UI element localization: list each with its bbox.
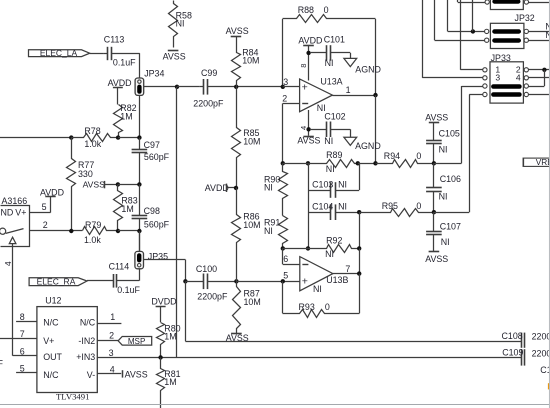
resistor R85 10M bbox=[232, 87, 261, 189]
svg-text:AVDD: AVDD bbox=[108, 78, 132, 88]
svg-text:1: 1 bbox=[110, 312, 115, 322]
svg-text:2200pF: 2200pF bbox=[532, 349, 550, 359]
svg-text:4: 4 bbox=[516, 73, 521, 83]
svg-text:-IN2: -IN2 bbox=[78, 336, 95, 346]
svg-text:AVDD: AVDD bbox=[298, 36, 322, 46]
feedback R93 left bbox=[282, 281, 284, 313]
ground AVSS (C107) bbox=[425, 252, 448, 264]
wire A3166 pin5 bbox=[30, 197, 51, 213]
svg-text:2: 2 bbox=[282, 93, 287, 103]
wire U13A output bbox=[332, 85, 375, 95]
svg-text:C101: C101 bbox=[324, 35, 345, 45]
resistor R81 1M bbox=[157, 358, 181, 408]
svg-text:AVSS: AVSS bbox=[425, 254, 448, 264]
svg-text:1.0k: 1.0k bbox=[84, 235, 101, 245]
pin 6 label bbox=[20, 347, 25, 357]
svg-text:AGND: AGND bbox=[355, 141, 381, 151]
wire U13B output bbox=[333, 264, 359, 274]
capacitor C109 2200pF bbox=[502, 347, 550, 365]
junction dot C102 bbox=[306, 127, 310, 131]
svg-text:N/C: N/C bbox=[43, 317, 59, 327]
wire U12 pin5 stub bbox=[16, 363, 37, 373]
svg-text:C114: C114 bbox=[109, 262, 130, 272]
svg-text:6: 6 bbox=[283, 254, 288, 264]
svg-text:10M: 10M bbox=[242, 55, 259, 65]
svg-text:N/C: N/C bbox=[80, 317, 96, 327]
wire C100 net down to C108 wire bbox=[185, 281, 187, 341]
power AVSS tick (U12 pin4) bbox=[123, 369, 148, 379]
svg-text:AVSS: AVSS bbox=[425, 113, 448, 123]
junction dot R94 left bbox=[373, 161, 377, 165]
resistor R80 1M bbox=[157, 323, 181, 358]
wire stub to dot bbox=[472, 0, 474, 31]
junction dot U13A pin3 bbox=[281, 85, 285, 89]
net flag MSP bbox=[118, 337, 152, 347]
op-amp U13B bbox=[300, 257, 349, 295]
junction dot R92 mid bbox=[306, 246, 310, 250]
svg-text:C108: C108 bbox=[502, 331, 523, 341]
svg-text:0.1uF: 0.1uF bbox=[113, 57, 136, 67]
wire C99 to opamp node bbox=[236, 86, 283, 88]
svg-text:2200pF: 2200pF bbox=[197, 292, 228, 302]
junction dot R80-R81 bbox=[158, 355, 162, 359]
wire AVSS node bbox=[118, 184, 139, 186]
resistor R87 10M bbox=[233, 282, 261, 334]
resistor R82 1M bbox=[114, 103, 137, 138]
capacitor C113 0.1uF bbox=[104, 35, 140, 68]
svg-text:C98: C98 bbox=[144, 206, 160, 216]
junction dot C97-C98 bbox=[137, 182, 141, 186]
pin 4 sideways label bbox=[299, 126, 308, 130]
power AVDD tick (R85-R86) bbox=[205, 183, 236, 193]
capacitor C101 NI bbox=[311, 35, 351, 68]
wire JP35 bottom to C114 bbox=[117, 269, 140, 281]
wire C106 node to JP33 pin7 bbox=[434, 95, 483, 213]
svg-text:AVSS: AVSS bbox=[226, 333, 249, 343]
wire bus to JP31 bbox=[458, 0, 486, 3]
svg-text:NI: NI bbox=[338, 179, 347, 189]
resistor R84 10M bbox=[232, 37, 260, 87]
capacitor C108 2200pF bbox=[502, 331, 550, 348]
junction dot C100 left bbox=[183, 279, 187, 283]
svg-text:AVSS: AVSS bbox=[83, 180, 106, 190]
power AVDD (A3166 pin5) bbox=[40, 187, 64, 197]
junction dot U13A out bbox=[373, 93, 377, 97]
wire bus to JP32 pin1 bbox=[448, 0, 485, 32]
comparator A3166 (partial) bbox=[1, 196, 30, 247]
capacitor C97 560pF bbox=[132, 138, 170, 185]
svg-text:R95: R95 bbox=[382, 201, 398, 211]
svg-text:TLV3491: TLV3491 bbox=[56, 392, 89, 402]
power AVSS (R84) bbox=[226, 26, 249, 36]
svg-text:C105: C105 bbox=[439, 129, 460, 139]
ground AVSS (U13A pin4) bbox=[297, 136, 320, 146]
svg-text:C113: C113 bbox=[104, 35, 125, 45]
wire R92 to U13B out bbox=[359, 248, 361, 273]
svg-text:NI: NI bbox=[439, 191, 448, 201]
svg-text:C1: C1 bbox=[540, 365, 550, 375]
junction dot R92 left bbox=[281, 246, 285, 250]
svg-text:5: 5 bbox=[20, 363, 25, 373]
power AVSS tick (R83) bbox=[83, 180, 118, 190]
svg-text:NI: NI bbox=[264, 226, 273, 236]
svg-text:0: 0 bbox=[325, 302, 330, 312]
svg-text:NI: NI bbox=[439, 145, 448, 155]
wire U13B pin6 bbox=[283, 248, 300, 264]
svg-text:C107: C107 bbox=[440, 221, 461, 231]
svg-text:AVDD: AVDD bbox=[205, 183, 229, 193]
svg-text:NI: NI bbox=[325, 249, 334, 259]
wire U12 pin2 to MSP bbox=[97, 331, 118, 341]
wire C113 to JP34 top bbox=[139, 53, 141, 78]
capacitor C99 2200pF bbox=[193, 68, 236, 108]
text fragment orange bbox=[548, 383, 550, 389]
junction dot C103 right bbox=[356, 161, 360, 165]
svg-text:ELEC_RA: ELEC_RA bbox=[37, 277, 76, 287]
svg-text:AVSS: AVSS bbox=[125, 369, 148, 379]
wire C100 to U13B pin5 bbox=[236, 281, 299, 283]
junction dot JP33 pin2 bbox=[542, 68, 546, 72]
wire U13A pin4 down bbox=[308, 110, 310, 136]
pin 4 label A3166 bbox=[3, 261, 13, 266]
resistor R91 NI bbox=[264, 216, 288, 249]
A3166 switch symbol bbox=[0, 228, 24, 247]
power DVDD bbox=[151, 296, 176, 322]
junction dot R82 bottom bbox=[116, 135, 120, 139]
junction dot JP32 pin1 wire bbox=[471, 29, 475, 33]
svg-text:1M: 1M bbox=[164, 332, 176, 342]
svg-text:2: 2 bbox=[43, 220, 48, 230]
resistor R86 10M bbox=[232, 188, 261, 282]
svg-text:NI: NI bbox=[313, 284, 322, 294]
pin 8 sideways label bbox=[299, 64, 308, 68]
svg-text:4: 4 bbox=[110, 365, 115, 375]
resistor R89 NI bbox=[283, 150, 358, 174]
wire U12 pin3 +IN3 bbox=[97, 348, 521, 358]
svg-text:C97: C97 bbox=[144, 140, 160, 150]
wire U12 pin4 bbox=[97, 365, 121, 375]
junction dot C103 left bbox=[306, 161, 310, 165]
wire left edge to R78 bbox=[0, 137, 71, 139]
capacitor C104 NI bbox=[308, 190, 359, 220]
svg-text:+: + bbox=[302, 82, 308, 94]
wires JP33 right bbox=[528, 70, 550, 95]
svg-text:R88: R88 bbox=[298, 5, 314, 15]
window edge bottom bbox=[0, 404, 550, 406]
svg-text:U13A: U13A bbox=[320, 76, 342, 86]
svg-text:C100: C100 bbox=[196, 264, 217, 274]
pin 2 label bbox=[282, 93, 287, 103]
svg-text:V-: V- bbox=[87, 370, 95, 380]
svg-text:6: 6 bbox=[20, 347, 25, 357]
svg-text:7: 7 bbox=[20, 329, 25, 339]
wire U12 pin7 V+ bbox=[0, 329, 37, 339]
junction dot R83 bottom bbox=[116, 229, 120, 233]
svg-text:8: 8 bbox=[20, 312, 25, 322]
ground AGND (C102) bbox=[344, 129, 381, 151]
svg-text:N/C: N/C bbox=[43, 370, 59, 380]
svg-text:ND: ND bbox=[1, 208, 14, 218]
wire chain to JP35 bbox=[139, 231, 141, 251]
resistor R94 0 bbox=[376, 151, 434, 167]
svg-text:C103: C103 bbox=[312, 179, 333, 189]
resistor R95 0 bbox=[360, 201, 434, 217]
svg-text:1M: 1M bbox=[121, 204, 133, 214]
svg-text:3: 3 bbox=[495, 73, 500, 83]
svg-text:VRE: VRE bbox=[536, 157, 550, 167]
feedback loop R88 left bbox=[282, 19, 284, 87]
svg-text:AVSS: AVSS bbox=[297, 136, 320, 146]
junction dot AVDD bbox=[234, 186, 238, 190]
wire JP34 to node LA bbox=[144, 86, 177, 88]
svg-text:DVDD: DVDD bbox=[151, 296, 176, 306]
wire pin3 to U13A bbox=[283, 86, 300, 88]
svg-text:7: 7 bbox=[345, 264, 350, 274]
svg-text:8: 8 bbox=[299, 64, 308, 68]
resistor R90 NI bbox=[264, 164, 288, 216]
wire C105 node to JP33 pin5 bbox=[434, 86, 483, 164]
wire node LA down bbox=[176, 87, 178, 358]
capacitor C105 NI bbox=[426, 123, 460, 164]
svg-text:1: 1 bbox=[346, 85, 351, 95]
feedback R93 right bbox=[359, 274, 361, 314]
jumper JP32 bbox=[485, 13, 535, 48]
wire U12 pin1 stub bbox=[97, 312, 121, 324]
svg-text:R94: R94 bbox=[384, 151, 400, 161]
svg-text:C104: C104 bbox=[312, 201, 333, 211]
window edge right bbox=[549, 0, 550, 408]
svg-text:C109: C109 bbox=[502, 347, 523, 357]
capacitor C106 NI bbox=[426, 163, 461, 212]
wires JP32 right bbox=[528, 21, 550, 40]
svg-text:10M: 10M bbox=[243, 220, 260, 230]
svg-text:NI: NI bbox=[326, 164, 335, 174]
svg-text:NI: NI bbox=[325, 58, 334, 68]
svg-text:10M: 10M bbox=[244, 297, 261, 307]
pin 5 label bbox=[283, 270, 288, 280]
capacitor C102 NI bbox=[311, 112, 351, 147]
resistor R92 NI bbox=[283, 236, 360, 260]
resistor R78 1.0k bbox=[72, 126, 119, 149]
svg-text:6: 6 bbox=[0, 346, 1, 356]
junction dot R77 top bbox=[69, 135, 73, 139]
junction dot C104 right bbox=[357, 210, 361, 214]
wire C104 right down bbox=[359, 212, 361, 248]
pin 3 label bbox=[283, 77, 288, 87]
wire R78 to C97 node bbox=[118, 137, 139, 139]
capacitor C103 NI bbox=[308, 163, 360, 198]
svg-text:R78: R78 bbox=[84, 126, 100, 136]
capacitor C100 2200pF bbox=[185, 264, 236, 302]
resistor R88 0 bbox=[283, 5, 376, 23]
net flag ELEC_RA bbox=[29, 277, 87, 287]
capacitor C107 NI bbox=[426, 212, 461, 252]
junction dot R89 left bbox=[281, 161, 285, 165]
ground AVSS (R58) bbox=[163, 51, 186, 62]
jumper JP33 bbox=[483, 53, 529, 103]
wire JP34 bottom down bbox=[139, 95, 141, 137]
junction dot R77 bottom bbox=[69, 229, 73, 233]
svg-text:560pF: 560pF bbox=[144, 152, 170, 162]
svg-text:MSP: MSP bbox=[128, 337, 146, 346]
junction dot chain-R79 bbox=[137, 229, 141, 233]
wire bus to JP33 pin1 bbox=[460, 0, 483, 70]
svg-text:OUT: OUT bbox=[43, 352, 62, 362]
resistor R79 1.0k bbox=[83, 220, 119, 245]
svg-text:NI: NI bbox=[441, 237, 450, 247]
junction dot R83 top bbox=[116, 182, 120, 186]
wire net RA to C108 bbox=[185, 341, 521, 343]
junction dot R84 node bbox=[234, 85, 238, 89]
op-amp U13A bbox=[300, 76, 343, 113]
power AVDD (U13A) bbox=[298, 36, 322, 81]
junction dot R92 right bbox=[357, 246, 361, 250]
wire U13A pin2 bbox=[283, 103, 300, 163]
capacitor C98 560pF bbox=[132, 184, 170, 251]
svg-text:3: 3 bbox=[109, 348, 114, 358]
svg-text:3: 3 bbox=[283, 77, 288, 87]
feedback loop R88 right bbox=[375, 19, 377, 95]
svg-text:JP34: JP34 bbox=[144, 68, 164, 78]
svg-text:560pF: 560pF bbox=[144, 220, 170, 230]
svg-text:U13B: U13B bbox=[326, 275, 348, 285]
IC U12 TLV3491 bbox=[37, 295, 97, 401]
svg-text:5: 5 bbox=[42, 202, 47, 212]
svg-text:2200pF: 2200pF bbox=[532, 331, 550, 341]
wire node LA to C99 bbox=[177, 86, 200, 88]
svg-text:AGND: AGND bbox=[355, 64, 381, 74]
power AVDD (R82) bbox=[108, 78, 132, 104]
svg-text:0: 0 bbox=[416, 201, 421, 211]
junction dot U13B out bbox=[357, 271, 361, 275]
svg-text:F: F bbox=[0, 358, 4, 368]
svg-text:A3166: A3166 bbox=[2, 196, 28, 206]
capacitor C114 0.1uF bbox=[87, 262, 140, 295]
resistor R58 NI bbox=[169, 1, 192, 48]
svg-text:JP32: JP32 bbox=[515, 13, 535, 23]
svg-text:R79: R79 bbox=[85, 220, 101, 230]
svg-text:R93: R93 bbox=[299, 302, 315, 312]
svg-text:NI: NI bbox=[264, 183, 273, 193]
svg-text:0: 0 bbox=[324, 5, 329, 15]
ground AGND (C101) bbox=[344, 53, 381, 75]
svg-text:1M: 1M bbox=[164, 377, 176, 387]
svg-text:U12: U12 bbox=[45, 295, 61, 305]
ground AVSS (R87) bbox=[226, 333, 249, 343]
wire R89 to out node bbox=[358, 163, 376, 165]
svg-text:1.0k: 1.0k bbox=[84, 139, 101, 149]
svg-text:R92: R92 bbox=[326, 236, 342, 246]
wire ELEC_LA to C113 bbox=[90, 53, 104, 55]
svg-text:+: + bbox=[302, 276, 308, 288]
svg-text:R89: R89 bbox=[326, 150, 342, 160]
text fragment C1.6 bbox=[0, 346, 4, 368]
resistor R77 330 bbox=[67, 138, 95, 232]
junction dot C97 top bbox=[137, 135, 141, 139]
net label VREF (partial) bbox=[523, 157, 550, 167]
svg-text:AVSS: AVSS bbox=[163, 51, 186, 61]
wire out down to R89 row bbox=[375, 95, 377, 163]
junction dot node LA bbox=[175, 85, 179, 89]
svg-text:330: 330 bbox=[78, 169, 93, 179]
svg-text:ELEC_LA: ELEC_LA bbox=[40, 48, 78, 58]
power AVSS (C105) bbox=[425, 113, 448, 123]
svg-text:0: 0 bbox=[416, 151, 421, 161]
svg-text:NI: NI bbox=[176, 18, 185, 28]
wire bus to JP33 pin3 bbox=[422, 0, 483, 78]
resistor R83 1M bbox=[114, 185, 138, 232]
jumper JP35 bbox=[135, 251, 168, 268]
junction dot U13B pin5 bbox=[281, 279, 285, 283]
wire R79 node to chain bbox=[118, 230, 139, 232]
svg-text:+IN3: +IN3 bbox=[76, 352, 95, 362]
junction dot C105-C106 bbox=[432, 161, 436, 165]
wire U12 pin8 stub bbox=[16, 312, 37, 322]
wire JP33 pin2 to pin6 bbox=[528, 70, 544, 87]
svg-text:10M: 10M bbox=[243, 137, 260, 147]
svg-text:5: 5 bbox=[283, 270, 288, 280]
text fragment C1 bbox=[540, 365, 550, 375]
svg-text:C102: C102 bbox=[324, 112, 345, 122]
jumper JP34 bbox=[135, 68, 164, 95]
junction dot C100 right bbox=[234, 279, 238, 283]
resistor R93 0 bbox=[283, 302, 360, 318]
svg-text:V+: V+ bbox=[15, 208, 26, 218]
svg-text:4: 4 bbox=[3, 261, 13, 266]
svg-text:AVSS: AVSS bbox=[226, 26, 249, 36]
svg-text:2200pF: 2200pF bbox=[193, 98, 224, 108]
wire bus to JP32 pin3 bbox=[435, 0, 485, 41]
wire A3166 pin2 to R79 bbox=[30, 220, 83, 230]
svg-text:0.1uF: 0.1uF bbox=[117, 285, 140, 295]
jumper JP31 (partial) bbox=[485, 0, 550, 10]
net flag ELEC_LA bbox=[29, 48, 90, 58]
wire C104 down to R92 bbox=[308, 212, 310, 248]
svg-text:1M: 1M bbox=[120, 112, 132, 122]
svg-text:C106: C106 bbox=[440, 174, 461, 184]
svg-text:NI: NI bbox=[324, 136, 333, 146]
svg-text:2: 2 bbox=[109, 331, 114, 341]
svg-text:V+: V+ bbox=[43, 336, 54, 346]
junction dot C101 bbox=[306, 51, 310, 55]
svg-text:C99: C99 bbox=[201, 68, 217, 78]
wire JP35 to C100 net bbox=[144, 260, 186, 282]
junction dot C106-C107 bbox=[432, 210, 436, 214]
svg-text:NI: NI bbox=[338, 201, 347, 211]
wire A3166 pin4 down bbox=[13, 247, 37, 356]
